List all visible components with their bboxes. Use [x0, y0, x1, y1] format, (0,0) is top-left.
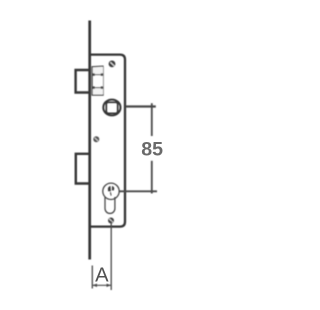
screw bottom	[108, 218, 114, 224]
dim A right arrow	[107, 284, 112, 287]
dim 85 vertical upper	[151, 103, 153, 136]
screw top	[109, 61, 116, 68]
dim 85 top horizontal	[126, 105, 156, 107]
small pin	[93, 136, 99, 142]
latch protrusion box	[76, 70, 90, 93]
latch head	[92, 66, 104, 95]
lock body	[90, 55, 126, 227]
faceplate	[88, 21, 91, 260]
dim A line	[92, 284, 111, 286]
euro cylinder	[103, 183, 119, 213]
dim A left arrow	[92, 284, 97, 287]
cylinder keyway	[108, 186, 114, 196]
deadbolt slot box	[76, 154, 90, 184]
dim 85 vertical lower	[151, 161, 153, 194]
dim A right extension	[110, 221, 112, 290]
follower (square spindle hole)	[103, 100, 120, 116]
svg-text:85: 85	[141, 139, 163, 161]
mortise lock technical diagram	[0, 0, 236, 305]
dim 85 bottom horizontal	[119, 190, 157, 192]
dim A left extension	[91, 266, 93, 289]
svg-text:A: A	[95, 264, 109, 286]
